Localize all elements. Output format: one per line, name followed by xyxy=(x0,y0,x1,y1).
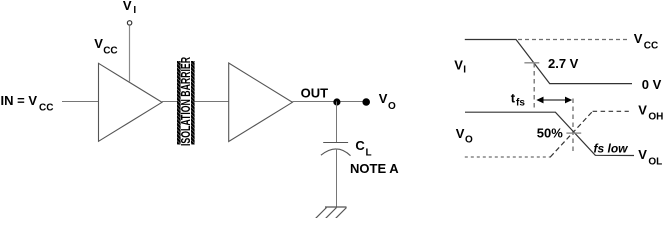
node VO label xyxy=(379,91,396,112)
ground xyxy=(315,207,347,219)
op-amp U1 (input-side buffer) xyxy=(99,63,163,141)
tick 50% crossing xyxy=(566,132,581,134)
svg-text:OUT: OUT xyxy=(301,86,329,101)
svg-text:V: V xyxy=(454,58,463,73)
svg-text:C: C xyxy=(355,138,365,153)
wire VI terminal to U1 top edge xyxy=(129,25,131,81)
wire dashed vertical at 50% crossing xyxy=(572,99,574,152)
dimension arrow tfs (double-headed) xyxy=(536,97,572,104)
svg-text:2.7 V: 2.7 V xyxy=(548,56,579,71)
svg-text:fs: fs xyxy=(516,98,525,109)
isolation barrier bar 1 xyxy=(177,61,181,145)
svg-text:V: V xyxy=(379,91,388,106)
junction OUT node xyxy=(333,98,340,105)
tick 2.7V threshold xyxy=(524,62,539,64)
wire isolation barrier to buffer U2 input xyxy=(195,101,229,103)
wire VOL level dashed reference (gray) xyxy=(465,156,551,158)
node VI label xyxy=(123,0,136,16)
node IN label "IN = VCC" xyxy=(1,93,54,114)
isolation barrier bar 2 xyxy=(191,61,195,145)
svg-text:V: V xyxy=(634,31,643,46)
svg-text:L: L xyxy=(366,148,372,159)
wire U2 output to VO terminal xyxy=(292,101,366,103)
svg-text:50%: 50% xyxy=(537,126,563,141)
svg-text:IN = V: IN = V xyxy=(1,93,38,108)
wire dashed vertical at 2.7V crossing xyxy=(533,63,535,109)
svg-text:CC: CC xyxy=(644,40,658,51)
wire VO alternate rising dashed trace xyxy=(550,111,592,157)
op-amp U2 (output-side buffer) xyxy=(229,63,293,142)
svg-text:CC: CC xyxy=(39,103,53,114)
wire OUT node down to CL xyxy=(336,102,338,143)
svg-text:I: I xyxy=(133,5,136,16)
svg-text:O: O xyxy=(465,135,473,146)
svg-text:V: V xyxy=(638,147,647,162)
value label tfs xyxy=(511,90,526,108)
svg-text:fs low: fs low xyxy=(594,141,629,155)
svg-text:OH: OH xyxy=(648,112,663,123)
node VOL label xyxy=(638,147,662,167)
value label CL xyxy=(355,138,371,159)
wire U1 output to isolation barrier xyxy=(162,101,178,103)
capacitor CL curved plate xyxy=(321,149,351,156)
wire VCC level dashed reference xyxy=(518,39,629,41)
node VI label (waveform) xyxy=(454,58,466,76)
svg-text:NOTE A: NOTE A xyxy=(350,161,399,176)
svg-text:OL: OL xyxy=(648,156,662,167)
node VCC label (waveform) xyxy=(634,31,659,51)
svg-text:ISOLATION BARRIER: ISOLATION BARRIER xyxy=(180,57,194,146)
wire CL to ground xyxy=(336,149,338,208)
capacitor CL top plate xyxy=(323,142,348,144)
terminal VO (filled dot) xyxy=(362,98,370,106)
wire IN to buffer U1 input xyxy=(62,101,99,103)
svg-text:0 V: 0 V xyxy=(642,77,662,92)
svg-text:CC: CC xyxy=(103,46,117,57)
svg-text:V: V xyxy=(94,36,103,51)
svg-text:V: V xyxy=(638,102,647,117)
terminal VI (open circle) xyxy=(127,21,131,25)
wire VOH level dashed reference xyxy=(593,110,629,112)
svg-text:V: V xyxy=(456,126,465,141)
wire VO waveform (solid trace fail-safe low) xyxy=(465,112,634,155)
node VOH label xyxy=(638,102,663,122)
node VCC label xyxy=(94,36,117,57)
svg-text:O: O xyxy=(388,101,396,112)
svg-text:V: V xyxy=(123,0,132,13)
wire VI waveform (solid trace VCC->0V) xyxy=(465,40,632,84)
svg-text:I: I xyxy=(463,65,466,76)
node VO label (waveform) xyxy=(456,126,473,146)
